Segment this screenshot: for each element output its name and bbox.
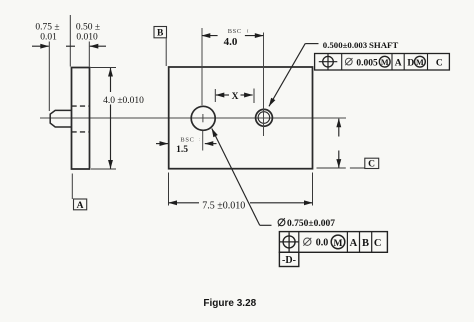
- main front view rectangle: [169, 67, 313, 169]
- centerline above large hole: [201, 28, 203, 105]
- centerline below large hole: [202, 131, 204, 151]
- svg-text:-D-: -D-: [282, 255, 296, 266]
- 0.50 dim arrow: [90, 45, 106, 47]
- svg-text:7.5 ±0.010: 7.5 ±0.010: [202, 201, 245, 212]
- 7.5 extension right: [312, 173, 314, 206]
- svg-text:A: A: [350, 238, 358, 249]
- circled M FCF1: [379, 56, 390, 67]
- pin (shaft) on side view: [50, 110, 71, 127]
- X extension right: [253, 89, 255, 104]
- svg-text:C: C: [436, 58, 443, 68]
- datum A box: [74, 199, 87, 210]
- svg-text:M: M: [334, 239, 343, 249]
- leader to small hole (0.500 shaft): [269, 44, 305, 107]
- svg-text:0.75 ±: 0.75 ±: [35, 23, 59, 33]
- svg-text::: :: [199, 136, 201, 141]
- svg-text:D: D: [407, 58, 414, 68]
- svg-text:A: A: [77, 201, 84, 211]
- X dimension right arrow: [241, 94, 253, 96]
- 4.0 BSC dimension line left: [202, 35, 218, 37]
- svg-text:C: C: [374, 238, 382, 249]
- small hole outer circle: [256, 109, 273, 126]
- svg-text:0.50 ±: 0.50 ±: [76, 23, 100, 33]
- svg-text:M: M: [416, 58, 424, 67]
- svg-text:BSC: BSC: [228, 28, 242, 35]
- 0.750 label diameter symbol: [278, 219, 285, 226]
- large hole center tick: [202, 114, 204, 122]
- horizontal centerline through pin and holes: [40, 117, 346, 119]
- extension line at pin tip: [48, 42, 50, 112]
- hidden hole lines in plate: [72, 105, 90, 107]
- svg-text:0.500±0.003 SHAFT: 0.500±0.003 SHAFT: [323, 40, 399, 50]
- datum D box: [279, 252, 298, 266]
- small hole inner circle (shaft): [258, 112, 270, 124]
- 4.0 +/-0.010 dimension line upper: [110, 68, 112, 92]
- position symbol FCF1: [323, 56, 334, 67]
- feature control frame 1 box: [315, 54, 450, 71]
- 1.5 BSC right arrow: [205, 143, 217, 145]
- svg-text:B: B: [362, 238, 369, 249]
- diameter symbol FCF2: [304, 238, 311, 245]
- right vertical dimension upper arrow: [338, 119, 340, 137]
- svg-text:0.750±0.007: 0.750±0.007: [287, 219, 335, 229]
- 4.0 +/-0.010 extension top: [91, 67, 117, 69]
- X extension left: [214, 89, 216, 102]
- bottom extension line right of rect: [317, 167, 346, 169]
- svg-text:M: M: [381, 58, 389, 67]
- svg-text:X: X: [232, 92, 239, 102]
- svg-text:A: A: [395, 58, 402, 68]
- 1.5 BSC left arrow: [156, 143, 168, 145]
- svg-text:4.0: 4.0: [224, 36, 238, 48]
- leader to large hole (0.750): [212, 129, 260, 226]
- X dimension left arrow: [216, 94, 229, 96]
- 7.5 extension left: [168, 173, 170, 206]
- position symbol FCF2: [283, 236, 295, 248]
- large hole 0.750: [191, 106, 215, 130]
- svg-text:BSC: BSC: [180, 136, 194, 143]
- circled M FCF2: [331, 235, 345, 249]
- extension line at plate right face: [88, 42, 90, 67]
- svg-text:0.010: 0.010: [76, 33, 98, 43]
- feature control frame 2 box: [279, 232, 387, 253]
- svg-text:C: C: [368, 160, 375, 170]
- datum B box: [154, 27, 167, 38]
- svg-text:0.01: 0.01: [40, 33, 57, 43]
- datum B leader line: [165, 38, 167, 66]
- datum C box: [365, 158, 379, 168]
- extension line at plate left face: [69, 15, 71, 67]
- 4.0 +/-0.010 extension bottom: [91, 168, 116, 170]
- 7.5 dim line left: [169, 202, 200, 204]
- svg-text:I: I: [247, 29, 249, 34]
- svg-text:4.0 ±0.010: 4.0 ±0.010: [103, 96, 144, 106]
- right vertical dimension lower arrow: [338, 151, 340, 168]
- svg-text:0.0: 0.0: [316, 238, 329, 249]
- svg-text:Figure 3.28: Figure 3.28: [203, 298, 256, 309]
- 4.0 +/-0.010 dimension line lower: [110, 105, 112, 169]
- svg-text:B: B: [157, 29, 164, 39]
- 7.5 dim line right: [250, 202, 313, 204]
- 0.75 dim arrow: [32, 45, 49, 47]
- side view plate: [72, 68, 90, 170]
- datum A leader line: [71, 174, 73, 200]
- dim line tick between extension lines: [66, 45, 75, 47]
- vertical centerline of small hole: [263, 33, 265, 137]
- 4.0 BSC dimension line right: [245, 35, 263, 37]
- diameter symbol FCF1: [345, 58, 352, 65]
- svg-text:1.5: 1.5: [176, 145, 188, 155]
- svg-text:0.005: 0.005: [356, 58, 378, 68]
